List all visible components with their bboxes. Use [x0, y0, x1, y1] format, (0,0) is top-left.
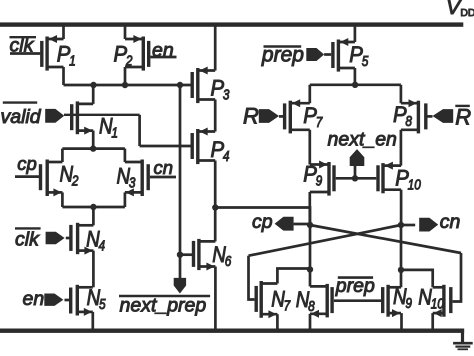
svg-text:3: 3: [129, 175, 136, 191]
svg-text:R: R: [455, 105, 471, 130]
svg-text:8: 8: [405, 114, 412, 130]
svg-text:en: en: [152, 40, 174, 62]
svg-text:5: 5: [362, 54, 369, 70]
svg-text:valid: valid: [1, 106, 42, 128]
svg-text:VDD: VDD: [446, 0, 474, 19]
svg-text:8: 8: [308, 299, 315, 315]
svg-text:cp: cp: [252, 211, 273, 233]
svg-text:5: 5: [99, 297, 106, 313]
svg-text:2: 2: [125, 53, 132, 69]
svg-text:next_prep: next_prep: [120, 295, 207, 317]
svg-text:cn: cn: [440, 211, 461, 233]
svg-text:3: 3: [223, 87, 230, 103]
svg-text:7: 7: [316, 115, 323, 131]
svg-text:clk: clk: [10, 34, 35, 56]
svg-text:cp: cp: [17, 153, 37, 174]
svg-text:9: 9: [316, 174, 323, 190]
svg-text:prep: prep: [261, 44, 304, 67]
svg-text:6: 6: [225, 254, 232, 270]
svg-text:clk: clk: [15, 229, 40, 251]
svg-text:2: 2: [71, 174, 78, 190]
svg-text:10: 10: [431, 297, 444, 313]
svg-text:1: 1: [69, 53, 76, 69]
svg-text:9: 9: [405, 296, 412, 312]
svg-text:1: 1: [111, 126, 118, 142]
svg-text:7: 7: [284, 298, 291, 314]
svg-text:cn: cn: [154, 157, 174, 178]
svg-text:4: 4: [99, 239, 106, 255]
svg-text:10: 10: [408, 178, 421, 194]
svg-text:en: en: [23, 288, 45, 310]
svg-text:next_en: next_en: [328, 129, 397, 151]
svg-text:prep: prep: [335, 275, 375, 297]
svg-text:R: R: [243, 104, 259, 129]
svg-text:4: 4: [223, 149, 230, 165]
